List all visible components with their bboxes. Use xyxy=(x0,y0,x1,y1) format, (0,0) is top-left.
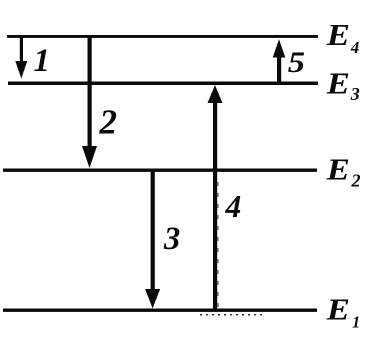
svg-text:5: 5 xyxy=(288,45,305,78)
svg-text:E: E xyxy=(326,293,350,327)
arrow 1 (E4 to E3, down) xyxy=(15,35,27,79)
svg-text:E: E xyxy=(326,67,350,101)
label E2 xyxy=(326,153,361,190)
svg-text:3: 3 xyxy=(350,84,360,104)
svg-text:1: 1 xyxy=(352,313,360,332)
label E1 xyxy=(326,293,361,331)
level line E4 xyxy=(7,35,318,38)
svg-text:4: 4 xyxy=(225,189,242,224)
svg-text:2: 2 xyxy=(351,171,361,191)
svg-text:4: 4 xyxy=(350,38,360,57)
svg-text:E: E xyxy=(326,19,350,53)
level line E2 xyxy=(3,169,317,172)
level line E3 xyxy=(8,82,318,86)
svg-text:1: 1 xyxy=(34,43,51,79)
scan noise dots under E1 line xyxy=(200,314,262,316)
scan noise dots along right edge of arrow 4 shaft xyxy=(217,182,219,307)
svg-text:3: 3 xyxy=(163,221,180,257)
label 5 xyxy=(288,45,305,78)
arrow 3 (E2 to E1, down) xyxy=(145,170,160,309)
label E3 xyxy=(326,67,360,104)
arrow 4 (E1 to E3, up) xyxy=(208,85,223,311)
level line E1 xyxy=(3,309,317,312)
arrow 5 (E3 to E4, up) xyxy=(273,39,286,84)
label E4 xyxy=(326,19,360,57)
svg-text:E: E xyxy=(326,153,350,187)
arrow 2 (E4 to E2, down) xyxy=(82,35,97,168)
svg-text:2: 2 xyxy=(99,102,118,141)
